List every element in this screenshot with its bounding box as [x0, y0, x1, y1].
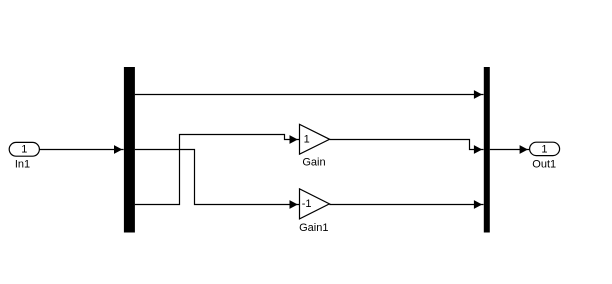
svg-text:Out1: Out1	[532, 159, 556, 171]
svg-text:1: 1	[21, 144, 27, 156]
svg-text:1: 1	[304, 134, 310, 146]
wire demux out1 to mux in1	[135, 90, 484, 99]
svg-text:Gain: Gain	[302, 157, 325, 169]
svg-text:In1: In1	[15, 159, 30, 171]
gain Gain	[300, 124, 330, 168]
wire Gain1 to mux in3	[329, 200, 483, 209]
outport Out1	[530, 142, 560, 170]
wire In1 to Demux	[39, 145, 123, 154]
demux	[124, 67, 135, 233]
wire mux to Out1	[490, 145, 529, 154]
inport In1	[9, 142, 39, 170]
svg-text:1: 1	[541, 143, 547, 155]
wire Gain to mux in2	[330, 140, 484, 154]
svg-text:-1: -1	[302, 198, 312, 210]
wire demux out2 to Gain1	[135, 150, 299, 209]
wire demux out3 to Gain	[135, 135, 299, 205]
svg-text:Gain1: Gain1	[299, 222, 328, 234]
gain Gain1	[299, 189, 329, 234]
mux	[484, 67, 490, 233]
